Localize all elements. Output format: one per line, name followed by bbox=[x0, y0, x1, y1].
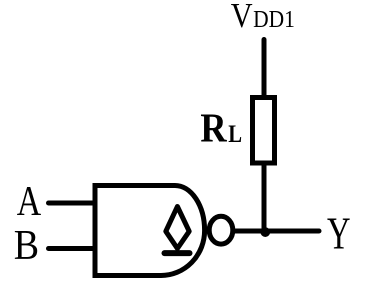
wire input A bbox=[49, 201, 98, 206]
svg-text:A: A bbox=[17, 179, 42, 225]
svg-text:L: L bbox=[228, 120, 242, 149]
svg-text:V: V bbox=[231, 0, 253, 35]
svg-text:B: B bbox=[14, 221, 39, 269]
junction node dot bbox=[260, 227, 270, 237]
svg-text:Y: Y bbox=[327, 208, 351, 258]
open-drain diamond symbol bbox=[166, 207, 189, 249]
wire VDD1 to resistor top bbox=[262, 40, 267, 100]
wire output to Y bbox=[235, 229, 319, 234]
NAND gate U1 body bbox=[95, 186, 205, 276]
resistor RL bbox=[253, 98, 275, 164]
wire resistor bottom to output node bbox=[262, 163, 267, 231]
wire input B bbox=[49, 246, 98, 251]
output inversion bubble bbox=[209, 216, 233, 244]
open-drain underline bar bbox=[165, 250, 190, 256]
svg-text:DD1: DD1 bbox=[253, 6, 295, 34]
svg-text:R: R bbox=[200, 106, 227, 152]
